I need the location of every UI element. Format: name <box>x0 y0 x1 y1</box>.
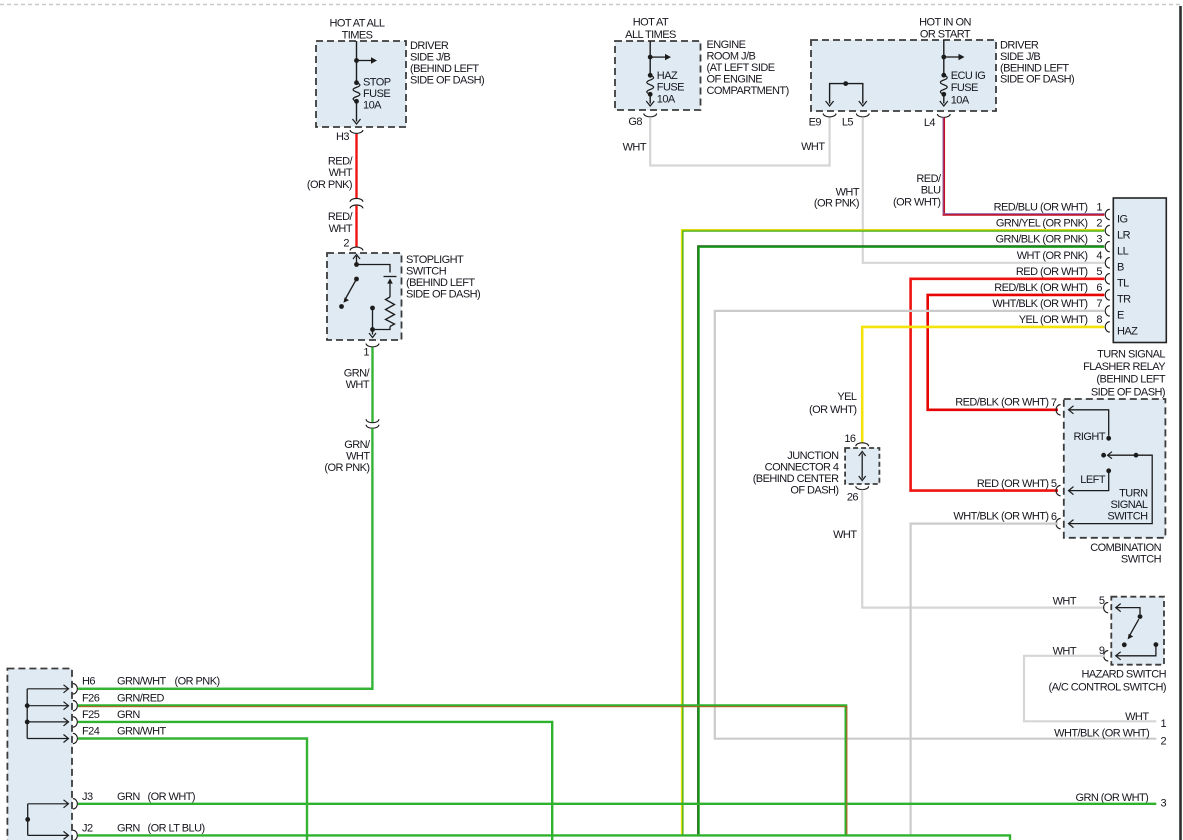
J/B1 bus node and branch arrow <box>354 58 359 63</box>
stoplight switch movable arm <box>345 279 357 301</box>
svg-text:FUSE: FUSE <box>657 81 684 93</box>
svg-text:10A: 10A <box>363 100 382 112</box>
wire RED/WHT from H3 to splice <box>355 134 357 198</box>
svg-text:(BEHIND LEFT: (BEHIND LEFT <box>410 63 479 75</box>
junction block ENGINE ROOM J/B box <box>615 41 701 110</box>
svg-text:2: 2 <box>1161 736 1167 748</box>
svg-text:(BEHIND LEFT: (BEHIND LEFT <box>406 277 475 289</box>
left connector pin arc <box>73 799 78 809</box>
svg-text:L5: L5 <box>842 117 854 129</box>
relay pin 4 B connector <box>1105 258 1110 268</box>
svg-text:STOP: STOP <box>363 76 391 88</box>
turn signal switch box <box>1064 399 1166 538</box>
svg-text:HAZ: HAZ <box>1117 326 1138 338</box>
svg-text:6: 6 <box>1051 511 1057 523</box>
svg-text:(BEHIND LEFT: (BEHIND LEFT <box>1000 62 1069 74</box>
svg-text:GRN: GRN <box>117 822 140 834</box>
turn signal switch pin 6 <box>1056 518 1061 528</box>
svg-text:7: 7 <box>1096 298 1102 310</box>
hazard switch pin 5 <box>1104 602 1109 612</box>
left connector bus for H6/F26/F25/F24 <box>26 689 28 739</box>
wire H6 GRN/WHT stub <box>78 688 372 690</box>
svg-text:G8: G8 <box>628 116 642 128</box>
junction block J/B2 DRIVER SIDE J/B (ECU IG fuse) box <box>811 40 996 111</box>
svg-text:2: 2 <box>1096 218 1102 230</box>
wire WHT from junction connector 26 to hazard switch pin 5 <box>862 490 1104 608</box>
svg-text:10A: 10A <box>657 93 676 105</box>
svg-text:WHT: WHT <box>833 529 857 541</box>
svg-text:RED/BLK (OR WHT): RED/BLK (OR WHT) <box>955 397 1048 409</box>
stoplight switch fixed contact branch <box>357 265 391 273</box>
svg-text:HAZARD SWITCH: HAZARD SWITCH <box>1081 668 1166 680</box>
svg-text:RED/BLK (OR WHT): RED/BLK (OR WHT) <box>994 282 1087 294</box>
relay pin 1 IG connector <box>1105 209 1110 219</box>
turn signal switch pin 5 <box>1056 485 1061 495</box>
svg-text:SWITCH: SWITCH <box>1107 510 1148 522</box>
svg-text:GRN/BLK (OR PNK): GRN/BLK (OR PNK) <box>995 234 1087 246</box>
svg-text:GRN (OR WHT): GRN (OR WHT) <box>1075 792 1148 804</box>
junction connector 4 pin 26 <box>856 486 869 489</box>
wire GRN/YEL from relay pin 2 down to bottom row <box>682 231 1104 836</box>
svg-text:HAZ: HAZ <box>657 70 678 82</box>
left connector box (behind dash junction connector) <box>7 669 72 840</box>
svg-text:RED (OR WHT): RED (OR WHT) <box>977 478 1049 490</box>
left connector bus for J3/J2 <box>27 804 29 836</box>
wire RED/BLU from L4 to flasher relay pin IG <box>944 118 1105 215</box>
svg-text:F25: F25 <box>82 709 100 721</box>
svg-text:HOT AT: HOT AT <box>633 17 669 29</box>
svg-text:5: 5 <box>1099 595 1105 607</box>
svg-text:J2: J2 <box>82 822 93 834</box>
svg-text:(AT LEFT SIDE: (AT LEFT SIDE <box>707 62 775 74</box>
svg-text:GRN/YEL (OR PNK): GRN/YEL (OR PNK) <box>996 218 1088 230</box>
svg-text:FLASHER RELAY: FLASHER RELAY <box>1083 361 1166 373</box>
wire WHT from G8 to E9 <box>650 117 829 165</box>
J/B2 internal branch to E9 and L5 <box>830 84 863 104</box>
connector L5 <box>856 114 869 117</box>
svg-text:SIDE OF DASH): SIDE OF DASH) <box>1091 386 1165 398</box>
svg-text:SWITCH: SWITCH <box>1121 554 1162 566</box>
relay pin 5 TL connector <box>1105 274 1110 284</box>
svg-text:YEL (OR WHT): YEL (OR WHT) <box>1019 314 1088 326</box>
wire J2 GRN (OR LT BLU) bottom row <box>78 835 1010 840</box>
svg-text:7: 7 <box>1051 397 1057 409</box>
svg-text:GRN/: GRN/ <box>344 368 371 380</box>
svg-text:SIDE OF DASH): SIDE OF DASH) <box>1000 74 1074 86</box>
stoplight switch box <box>327 253 402 340</box>
svg-text:IG: IG <box>1117 213 1128 225</box>
svg-text:WHT: WHT <box>346 379 370 391</box>
wire F24 GRN/WHT down off page <box>78 739 307 840</box>
relay pin 2 LR connector <box>1105 225 1110 235</box>
svg-text:GRN/: GRN/ <box>344 439 371 451</box>
svg-text:CONNECTOR 4: CONNECTOR 4 <box>765 462 839 474</box>
svg-text:3: 3 <box>1096 234 1102 246</box>
svg-text:(OR WHT): (OR WHT) <box>893 196 941 208</box>
relay pin 8 HAZ connector <box>1105 322 1110 332</box>
fuse ECU IG FUSE 10A <box>941 73 946 78</box>
svg-text:WHT/BLK (OR WHT): WHT/BLK (OR WHT) <box>953 511 1048 523</box>
turn signal switch common arm <box>1101 453 1106 458</box>
left connector branch arrow <box>27 688 68 690</box>
J/B2 bus node and branch arrow <box>941 55 946 60</box>
svg-text:RED/: RED/ <box>916 173 942 185</box>
connector L4 <box>937 114 950 117</box>
left connector pin arc <box>73 684 78 694</box>
wire YEL from relay pin 8 to junction connector 4 pin 16 <box>862 327 1104 443</box>
svg-text:16: 16 <box>844 433 856 445</box>
J/B1 internal feed wire <box>356 41 358 83</box>
svg-text:TL: TL <box>1117 278 1129 290</box>
fuse STOP FUSE 10A <box>354 80 359 85</box>
svg-text:E: E <box>1117 310 1124 322</box>
svg-text:FUSE: FUSE <box>951 82 978 94</box>
stoplight switch internals: entry pin with arrow <box>356 256 358 265</box>
stoplight switch pin 1 <box>366 344 379 347</box>
svg-text:L4: L4 <box>924 117 936 129</box>
page top dashed border <box>0 4 1183 6</box>
svg-text:RED/: RED/ <box>328 211 354 223</box>
svg-text:WHT: WHT <box>329 223 353 235</box>
left connector pin arc <box>73 830 78 840</box>
wire GRN/BLK from relay pin 3 down to bottom row <box>699 247 1105 836</box>
turn signal switch pin 7 <box>1056 405 1061 415</box>
svg-text:JUNCTION: JUNCTION <box>787 450 839 462</box>
svg-text:RED (OR WHT): RED (OR WHT) <box>1016 266 1088 278</box>
svg-text:WHT/BLK (OR WHT): WHT/BLK (OR WHT) <box>1054 727 1149 739</box>
left connector branch arrow <box>27 705 68 707</box>
page right border <box>1179 6 1182 840</box>
svg-text:F26: F26 <box>82 693 100 705</box>
hazard switch pin 9 <box>1104 651 1109 661</box>
svg-text:(OR PNK): (OR PNK) <box>324 462 369 474</box>
relay pin 6 TR connector <box>1105 290 1110 300</box>
J/B2 internal feed wire <box>943 40 945 75</box>
turn signal switch RIGHT contact <box>1069 410 1109 436</box>
svg-text:(OR PNK): (OR PNK) <box>307 179 352 191</box>
svg-text:GRN/WHT: GRN/WHT <box>117 676 167 688</box>
svg-text:ALL TIMES: ALL TIMES <box>625 29 676 41</box>
svg-text:ECU IG: ECU IG <box>951 70 986 82</box>
svg-text:DRIVER: DRIVER <box>410 40 449 52</box>
svg-text:J3: J3 <box>82 791 93 803</box>
relay pin 3 LL connector <box>1105 241 1110 251</box>
svg-text:(OR WHT): (OR WHT) <box>809 404 857 416</box>
svg-text:WHT: WHT <box>329 167 353 179</box>
svg-text:TR: TR <box>1117 294 1131 306</box>
wire F26 GRN/RED to bottom <box>78 706 846 836</box>
svg-text:SIGNAL: SIGNAL <box>1110 499 1147 511</box>
wire F25 GRN down off page <box>78 722 552 840</box>
svg-text:WHT: WHT <box>1053 595 1077 607</box>
svg-text:COMPARTMENT): COMPARTMENT) <box>707 85 789 97</box>
resistor in stoplight switch <box>386 297 395 327</box>
svg-text:LL: LL <box>1117 245 1129 257</box>
svg-text:RIGHT: RIGHT <box>1074 431 1106 443</box>
wire WHT (OR PNK) from L5 to flasher relay pin B <box>863 117 1105 263</box>
svg-text:F24: F24 <box>82 725 100 737</box>
svg-text:WHT: WHT <box>801 141 825 153</box>
svg-text:OF DASH): OF DASH) <box>790 485 838 497</box>
svg-text:1: 1 <box>1096 202 1102 214</box>
svg-text:(OR LT BLU): (OR LT BLU) <box>148 822 205 834</box>
svg-text:GRN: GRN <box>117 791 140 803</box>
svg-text:HOT AT ALL: HOT AT ALL <box>329 18 384 30</box>
svg-text:WHT: WHT <box>1125 711 1149 723</box>
svg-text:5: 5 <box>1096 266 1102 278</box>
svg-text:HOT IN ON: HOT IN ON <box>919 17 971 29</box>
svg-text:OR START: OR START <box>920 29 971 41</box>
svg-text:1: 1 <box>1161 718 1167 730</box>
connector H3 at J/B1 output <box>350 130 363 133</box>
svg-text:SIDE OF DASH): SIDE OF DASH) <box>410 74 484 86</box>
svg-text:B: B <box>1117 262 1124 274</box>
inline connector splice on green wire <box>366 419 379 422</box>
svg-text:(BEHIND CENTER: (BEHIND CENTER <box>753 473 839 485</box>
left connector branch arrow <box>27 721 68 723</box>
svg-text:TURN SIGNAL: TURN SIGNAL <box>1097 349 1165 361</box>
svg-text:GRN/WHT: GRN/WHT <box>117 725 167 737</box>
inline connector splice on red wire <box>350 198 363 201</box>
junction connector 4 pin 16 <box>856 443 869 446</box>
hazard switch fixed contact to pin 9 <box>1154 642 1159 647</box>
svg-text:26: 26 <box>847 492 859 504</box>
svg-text:OF ENGINE: OF ENGINE <box>707 74 763 86</box>
svg-text:4: 4 <box>1096 250 1102 262</box>
connector E9 <box>823 114 836 117</box>
wire GRN/WHT from stoplight switch pin 1 <box>371 347 373 422</box>
ENGINE ROOM J/B internal feed wire <box>649 41 651 75</box>
svg-text:WHT/BLK (OR WHT): WHT/BLK (OR WHT) <box>992 298 1087 310</box>
svg-text:TIMES: TIMES <box>342 30 373 42</box>
hazard switch box <box>1111 597 1164 665</box>
svg-text:(OR PNK): (OR PNK) <box>814 198 859 210</box>
svg-text:H3: H3 <box>336 131 349 143</box>
svg-text:H6: H6 <box>82 676 95 688</box>
svg-text:SWITCH: SWITCH <box>406 266 447 278</box>
svg-text:3: 3 <box>1161 798 1167 810</box>
svg-text:(OR PNK): (OR PNK) <box>175 676 220 688</box>
svg-text:DRIVER: DRIVER <box>1000 40 1039 52</box>
connector G8 <box>644 114 657 117</box>
stoplight switch exit pin with arrow <box>372 330 374 335</box>
svg-text:BLU: BLU <box>921 185 941 197</box>
ENGINE ROOM J/B bus node and branch arrow <box>648 55 653 60</box>
wire WHT/BLK from relay pin 7 down to right edge row 2 <box>715 311 1157 739</box>
left connector pin arc <box>73 701 78 711</box>
wire WHT from hazard switch pin 9 to right edge row 1 <box>1024 656 1156 722</box>
turn signal switch LEFT contact <box>1106 468 1111 473</box>
svg-text:WHT: WHT <box>623 142 647 154</box>
svg-text:RED/: RED/ <box>328 156 354 168</box>
svg-text:ROOM J/B: ROOM J/B <box>707 51 756 63</box>
wire WHT/BLK from turn signal switch pin 6 down to bottom row <box>911 524 1058 836</box>
wire GRN row 3 from connector J3 to right edge <box>78 803 1156 805</box>
svg-text:ENGINE: ENGINE <box>707 39 746 51</box>
svg-text:(OR WHT): (OR WHT) <box>148 791 196 803</box>
svg-text:RED/BLU (OR WHT): RED/BLU (OR WHT) <box>994 202 1088 214</box>
wire GRN/WHT down to connector H6 row <box>78 428 372 689</box>
svg-text:LEFT: LEFT <box>1080 474 1106 486</box>
svg-text:FUSE: FUSE <box>363 88 390 100</box>
wire RED/WHT from splice to stoplight switch pin 2 <box>355 206 357 248</box>
svg-text:STOPLIGHT: STOPLIGHT <box>406 254 464 266</box>
svg-text:10A: 10A <box>951 94 970 106</box>
svg-text:YEL: YEL <box>837 391 857 403</box>
svg-text:1: 1 <box>363 347 369 359</box>
svg-text:E9: E9 <box>809 117 822 129</box>
svg-text:5: 5 <box>1051 478 1057 490</box>
svg-text:LR: LR <box>1117 229 1131 241</box>
wire RED from relay pin 5 to turn signal switch pin 5 <box>911 279 1105 491</box>
svg-text:2: 2 <box>343 238 349 250</box>
wire RED/BLK from relay pin 6 to turn signal switch pin 7 <box>928 295 1105 410</box>
stoplight switch output node <box>373 327 391 330</box>
svg-text:(A/C CONTROL SWITCH): (A/C CONTROL SWITCH) <box>1048 681 1166 693</box>
junction connector 4 internal double arrow <box>861 454 863 479</box>
relay pin 7 E connector <box>1105 306 1110 316</box>
left connector pin arc <box>73 733 78 743</box>
svg-text:GRN: GRN <box>117 709 140 721</box>
svg-text:SIDE J/B: SIDE J/B <box>410 52 450 64</box>
junction connector 4 box <box>845 448 879 484</box>
turn signal flasher relay box <box>1113 198 1166 343</box>
hazard switch movable contact <box>1116 608 1140 615</box>
svg-text:(BEHIND LEFT: (BEHIND LEFT <box>1096 374 1165 386</box>
svg-text:8: 8 <box>1096 314 1102 326</box>
left connector branch arrow <box>27 738 68 740</box>
svg-text:TURN: TURN <box>1119 488 1148 500</box>
svg-text:GRN/RED: GRN/RED <box>117 693 164 705</box>
fuse HAZ FUSE 10A <box>648 73 653 78</box>
svg-text:SIDE OF DASH): SIDE OF DASH) <box>406 289 480 301</box>
svg-text:6: 6 <box>1096 282 1102 294</box>
svg-text:SIDE J/B: SIDE J/B <box>1000 51 1040 63</box>
svg-text:WHT: WHT <box>346 451 370 463</box>
left connector pin arc <box>73 717 78 727</box>
svg-text:WHT (OR PNK): WHT (OR PNK) <box>1017 250 1088 262</box>
svg-text:COMBINATION: COMBINATION <box>1090 542 1161 554</box>
junction block J/B1 DRIVER SIDE J/B (stop fuse) box <box>316 41 406 127</box>
